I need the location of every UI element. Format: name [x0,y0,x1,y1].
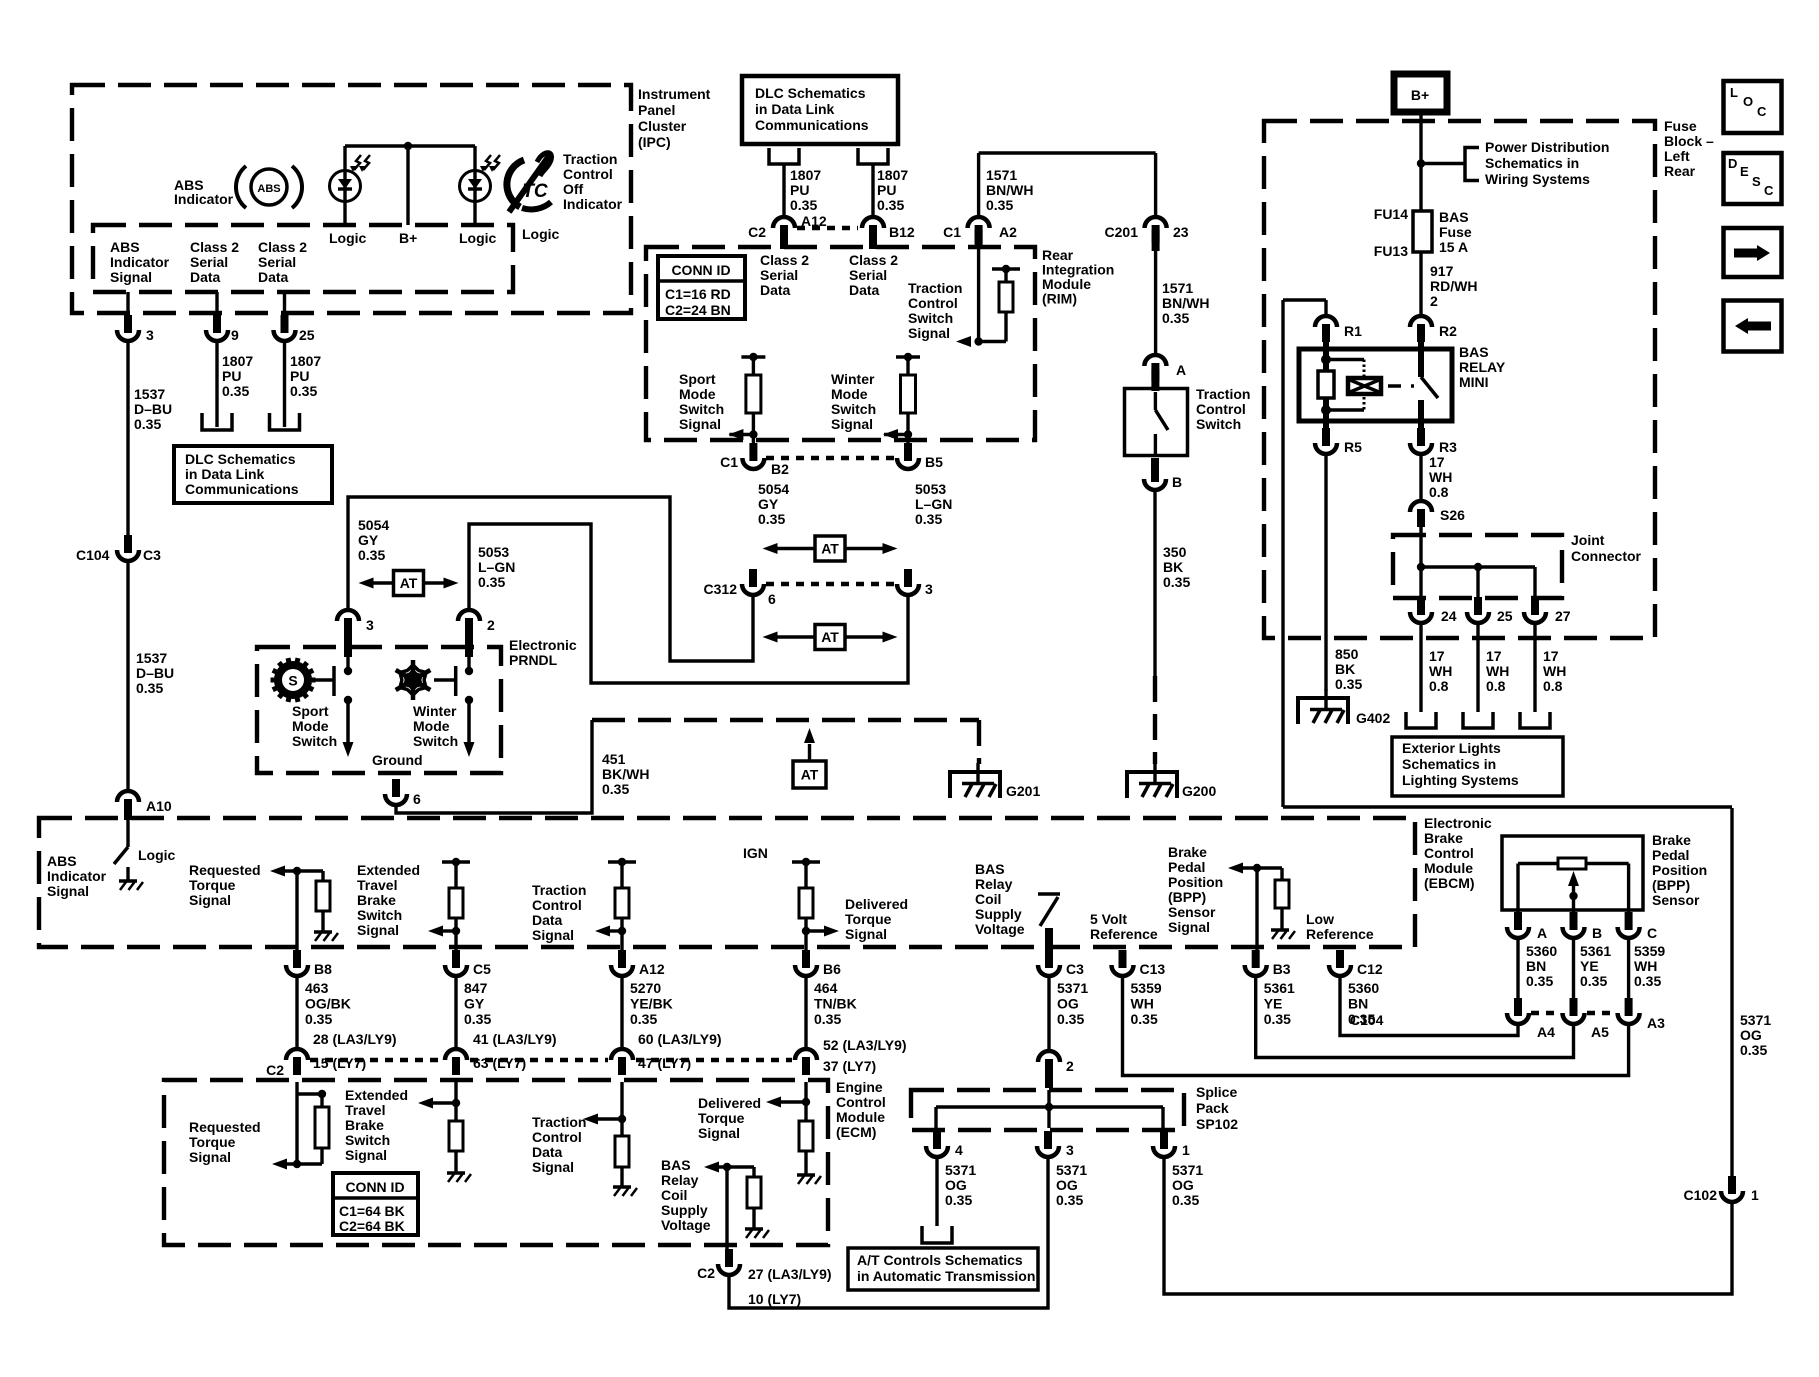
svg-text:Control: Control [532,1129,582,1145]
svg-text:0.35: 0.35 [630,1011,657,1027]
svg-text:C12: C12 [1357,961,1383,977]
svg-text:C2: C2 [697,1265,715,1281]
svg-text:Signal: Signal [532,927,574,943]
svg-text:451: 451 [602,751,626,767]
svg-text:TN/BK: TN/BK [814,996,857,1012]
svg-text:C2: C2 [748,224,766,240]
svg-text:Control: Control [563,166,613,182]
svg-text:PRNDL: PRNDL [509,652,558,668]
svg-text:Voltage: Voltage [975,921,1025,937]
svg-text:Pedal: Pedal [1168,859,1205,875]
svg-text:0.35: 0.35 [222,383,249,399]
svg-text:in Data Link: in Data Link [755,101,835,117]
svg-text:RD/WH: RD/WH [1430,278,1477,294]
svg-text:0.35: 0.35 [1264,1011,1291,1027]
svg-text:Switch: Switch [1196,416,1241,432]
svg-text:0.35: 0.35 [290,383,317,399]
svg-text:Travel: Travel [357,877,397,893]
svg-text:1807: 1807 [290,353,321,369]
svg-text:5 Volt: 5 Volt [1090,911,1127,927]
svg-text:Requested: Requested [189,1119,261,1135]
svg-text:6: 6 [413,791,421,807]
svg-text:C3: C3 [1066,961,1084,977]
svg-text:3: 3 [925,581,933,597]
svg-text:Signal: Signal [357,922,399,938]
svg-text:Indicator: Indicator [47,868,107,884]
svg-text:0.35: 0.35 [945,1192,972,1208]
svg-text:Requested: Requested [189,862,261,878]
svg-text:IGN: IGN [743,845,768,861]
svg-text:917: 917 [1430,263,1454,279]
svg-text:Torque: Torque [698,1110,745,1126]
svg-text:BK: BK [1335,661,1355,677]
svg-text:C13: C13 [1140,961,1166,977]
svg-text:Data: Data [190,269,221,285]
svg-text:5360: 5360 [1526,943,1557,959]
svg-text:2: 2 [1430,293,1438,309]
svg-text:5359: 5359 [1634,943,1665,959]
svg-text:S26: S26 [1440,507,1465,523]
svg-text:25: 25 [299,327,315,343]
svg-text:0.35: 0.35 [1057,1011,1084,1027]
svg-text:0.35: 0.35 [305,1011,332,1027]
svg-text:A10: A10 [146,798,172,814]
svg-text:0.35: 0.35 [1163,574,1190,590]
svg-text:C312: C312 [704,581,738,597]
svg-text:D–BU: D–BU [134,401,172,417]
svg-text:Class 2: Class 2 [258,239,307,255]
svg-text:C1=16 RD: C1=16 RD [665,286,731,302]
svg-text:Indicator: Indicator [110,254,170,270]
svg-text:MINI: MINI [1459,374,1489,390]
svg-text:G201: G201 [1006,783,1040,799]
svg-text:Sport: Sport [292,703,329,719]
svg-text:Control: Control [836,1094,886,1110]
svg-text:Serial: Serial [849,267,887,283]
svg-text:17: 17 [1543,648,1559,664]
svg-text:Joint: Joint [1571,532,1605,548]
svg-text:B5: B5 [925,454,943,470]
svg-text:5371: 5371 [1740,1012,1771,1028]
svg-text:L–GN: L–GN [478,559,515,575]
svg-text:0.35: 0.35 [758,511,785,527]
svg-text:Block –: Block – [1664,133,1714,149]
svg-text:1807: 1807 [877,167,908,183]
svg-text:Mode: Mode [679,386,716,402]
svg-text:Left: Left [1664,148,1690,164]
svg-text:PU: PU [790,182,809,198]
svg-text:Switch: Switch [292,733,337,749]
svg-text:A4: A4 [1537,1024,1555,1040]
svg-text:15 (LY7): 15 (LY7) [313,1055,366,1071]
svg-text:Switch: Switch [345,1132,390,1148]
svg-text:(EBCM): (EBCM) [1424,875,1475,891]
svg-text:DLC Schematics: DLC Schematics [185,451,296,467]
svg-text:Splice: Splice [1196,1084,1237,1100]
svg-text:0.8: 0.8 [1429,484,1449,500]
svg-text:D: D [1728,156,1737,171]
svg-text:S: S [1752,174,1761,189]
svg-text:B12: B12 [889,224,915,240]
svg-text:R2: R2 [1439,323,1457,339]
svg-text:0.35: 0.35 [464,1011,491,1027]
svg-text:YE/BK: YE/BK [630,996,673,1012]
svg-text:(IPC): (IPC) [638,134,671,150]
svg-text:B6: B6 [823,961,841,977]
svg-text:(RIM): (RIM) [1042,291,1077,307]
svg-text:1537: 1537 [136,650,167,666]
svg-text:C: C [1647,925,1657,941]
svg-text:FU14: FU14 [1374,206,1408,222]
svg-text:Module: Module [836,1109,885,1125]
svg-text:Schematics in: Schematics in [1402,756,1496,772]
svg-text:Coil: Coil [975,891,1001,907]
svg-text:Sensor: Sensor [1652,892,1700,908]
svg-text:0.35: 0.35 [1526,973,1553,989]
svg-text:Sport: Sport [679,371,716,387]
svg-text:CONN ID: CONN ID [345,1179,404,1195]
svg-text:Signal: Signal [189,1149,231,1165]
svg-text:0.35: 0.35 [877,197,904,213]
svg-text:BAS: BAS [1459,344,1489,360]
svg-text:6: 6 [768,591,776,607]
svg-text:OG: OG [1740,1027,1762,1043]
svg-text:AT: AT [801,767,819,783]
svg-text:Serial: Serial [258,254,296,270]
svg-text:0.35: 0.35 [915,511,942,527]
svg-text:5054: 5054 [758,481,789,497]
svg-text:Control: Control [908,295,958,311]
svg-text:OG: OG [1172,1177,1194,1193]
svg-text:RELAY: RELAY [1459,359,1506,375]
svg-text:1571: 1571 [986,167,1017,183]
svg-text:Control: Control [1196,401,1246,417]
svg-text:DLC Schematics: DLC Schematics [755,85,866,101]
svg-text:Signal: Signal [345,1147,387,1163]
svg-text:Logic: Logic [522,226,560,242]
svg-text:Pedal: Pedal [1652,847,1689,863]
svg-text:5361: 5361 [1580,943,1611,959]
svg-text:GY: GY [464,996,485,1012]
svg-text:in Automatic Transmission: in Automatic Transmission [857,1268,1035,1284]
svg-text:3: 3 [366,617,374,633]
svg-text:A2: A2 [999,224,1017,240]
svg-text:0.35: 0.35 [136,680,163,696]
svg-text:3: 3 [1066,1142,1074,1158]
svg-text:BAS: BAS [1439,209,1469,225]
svg-text:0.8: 0.8 [1486,678,1506,694]
svg-text:A3: A3 [1647,1015,1665,1031]
svg-text:Logic: Logic [459,230,497,246]
svg-text:R5: R5 [1344,439,1362,455]
svg-text:24: 24 [1441,608,1457,624]
svg-text:Voltage: Voltage [661,1217,711,1233]
svg-text:OG: OG [945,1177,967,1193]
svg-text:Cluster: Cluster [638,118,687,134]
svg-text:27 (LA3/LY9): 27 (LA3/LY9) [748,1266,832,1282]
svg-text:AT: AT [400,575,418,591]
svg-text:Position: Position [1652,862,1707,878]
svg-text:Serial: Serial [190,254,228,270]
svg-text:L: L [1730,85,1738,100]
svg-text:Power Distribution: Power Distribution [1485,139,1609,155]
svg-text:Signal: Signal [189,892,231,908]
svg-text:C102: C102 [1684,1187,1718,1203]
svg-text:1: 1 [1751,1187,1759,1203]
svg-text:(BPP): (BPP) [1168,889,1206,905]
svg-text:Signal: Signal [1168,919,1210,935]
svg-text:5371: 5371 [1056,1162,1087,1178]
svg-text:0.35: 0.35 [134,416,161,432]
svg-text:5054: 5054 [358,517,389,533]
svg-text:0.35: 0.35 [602,781,629,797]
svg-text:Switch: Switch [908,310,953,326]
svg-text:Extended: Extended [357,862,420,878]
svg-text:ABS: ABS [257,183,280,195]
svg-text:BN: BN [1526,958,1546,974]
svg-text:WH: WH [1429,469,1452,485]
svg-text:AT: AT [821,541,839,557]
svg-text:5270: 5270 [630,980,661,996]
svg-text:Signal: Signal [532,1159,574,1175]
svg-text:Pack: Pack [1196,1100,1229,1116]
svg-text:Electronic: Electronic [509,637,577,653]
svg-text:B+: B+ [399,230,417,246]
svg-text:GY: GY [358,532,379,548]
svg-text:Traction: Traction [532,882,586,898]
svg-text:2: 2 [487,617,495,633]
svg-text:R3: R3 [1439,439,1457,455]
svg-text:10 (LY7): 10 (LY7) [748,1291,801,1307]
svg-text:0.8: 0.8 [1429,678,1449,694]
svg-text:B2: B2 [771,461,789,477]
svg-text:C5: C5 [473,961,491,977]
svg-text:Brake: Brake [1424,830,1463,846]
svg-text:Data: Data [532,912,563,928]
svg-text:Engine: Engine [836,1079,883,1095]
svg-text:Travel: Travel [345,1102,385,1118]
svg-text:GY: GY [758,496,779,512]
svg-text:C1: C1 [720,454,738,470]
svg-text:Delivered: Delivered [698,1095,761,1111]
svg-text:Data: Data [258,269,289,285]
svg-text:C201: C201 [1105,224,1139,240]
svg-text:1: 1 [1182,1142,1190,1158]
svg-text:464: 464 [814,980,838,996]
svg-text:G402: G402 [1356,710,1390,726]
svg-text:PU: PU [877,182,896,198]
svg-text:0.35: 0.35 [358,547,385,563]
svg-text:Mode: Mode [413,718,450,734]
svg-text:S: S [288,673,297,689]
svg-text:Electronic: Electronic [1424,815,1492,831]
svg-text:A5: A5 [1591,1024,1609,1040]
svg-text:Brake: Brake [1168,844,1207,860]
svg-text:BN/WH: BN/WH [986,182,1033,198]
svg-text:C1: C1 [943,224,961,240]
svg-text:C: C [1764,183,1774,198]
svg-text:25: 25 [1497,608,1513,624]
svg-text:PU: PU [290,368,309,384]
svg-text:SP102: SP102 [1196,1116,1238,1132]
svg-text:Schematics in: Schematics in [1485,155,1579,171]
svg-text:A/T Controls Schematics: A/T Controls Schematics [857,1252,1023,1268]
svg-text:Instrument: Instrument [638,86,711,102]
svg-text:C104: C104 [76,547,110,563]
svg-text:Traction: Traction [1196,386,1250,402]
svg-text:Supply: Supply [975,906,1022,922]
svg-text:BK/WH: BK/WH [602,766,649,782]
svg-text:Class 2: Class 2 [849,252,898,268]
svg-text:Signal: Signal [110,269,152,285]
svg-text:52 (LA3/LY9): 52 (LA3/LY9) [823,1037,907,1053]
svg-text:WH: WH [1131,996,1154,1012]
svg-text:Relay: Relay [661,1172,699,1188]
svg-text:C: C [1757,104,1767,119]
svg-text:Logic: Logic [138,847,176,863]
svg-text:Signal: Signal [845,926,887,942]
svg-text:YE: YE [1264,996,1283,1012]
svg-text:5360: 5360 [1348,980,1379,996]
svg-text:B3: B3 [1273,961,1291,977]
svg-text:Ground: Ground [372,752,423,768]
svg-text:B: B [1172,474,1182,490]
svg-text:Winter: Winter [831,371,875,387]
svg-text:Switch: Switch [679,401,724,417]
svg-text:37 (LY7): 37 (LY7) [823,1058,876,1074]
svg-text:5371: 5371 [1057,980,1088,996]
svg-text:17: 17 [1486,648,1502,664]
svg-text:Extended: Extended [345,1087,408,1103]
svg-text:3: 3 [146,327,154,343]
svg-text:AT: AT [821,629,839,645]
svg-text:5053: 5053 [915,481,946,497]
svg-text:Torque: Torque [189,877,236,893]
svg-text:BK: BK [1163,559,1183,575]
svg-text:1571: 1571 [1162,280,1193,296]
svg-text:Class 2: Class 2 [190,239,239,255]
svg-text:C2: C2 [266,1062,284,1078]
svg-text:5371: 5371 [945,1162,976,1178]
svg-text:Data: Data [532,1144,563,1160]
svg-text:PU: PU [222,368,241,384]
svg-text:5361: 5361 [1264,980,1295,996]
svg-text:60 (LA3/LY9): 60 (LA3/LY9) [638,1031,722,1047]
svg-text:9: 9 [231,327,239,343]
svg-text:41 (LA3/LY9): 41 (LA3/LY9) [473,1031,557,1047]
svg-text:1807: 1807 [790,167,821,183]
svg-text:63 (LY7): 63 (LY7) [473,1055,526,1071]
svg-text:0.35: 0.35 [1172,1192,1199,1208]
svg-text:C1=64 BK: C1=64 BK [339,1203,405,1219]
svg-text:Brake: Brake [1652,832,1691,848]
svg-text:Communications: Communications [185,481,299,497]
svg-text:Indicator: Indicator [174,191,234,207]
svg-text:Switch: Switch [831,401,876,417]
svg-text:BN/WH: BN/WH [1162,295,1209,311]
svg-text:Supply: Supply [661,1202,708,1218]
svg-text:Fuse: Fuse [1439,224,1472,240]
svg-text:ABS: ABS [47,853,77,869]
svg-text:23: 23 [1173,224,1189,240]
svg-text:Winter: Winter [413,703,457,719]
svg-text:Communications: Communications [755,117,869,133]
svg-text:0.35: 0.35 [1580,973,1607,989]
svg-text:Reference: Reference [1090,926,1158,942]
svg-text:17: 17 [1429,454,1445,470]
svg-text:Indicator: Indicator [563,196,623,212]
svg-text:A: A [1176,362,1186,378]
svg-text:Data: Data [849,282,880,298]
svg-text:0.35: 0.35 [1634,973,1661,989]
svg-text:2: 2 [1066,1058,1074,1074]
svg-text:0.35: 0.35 [1162,310,1189,326]
svg-text:WH: WH [1634,958,1657,974]
svg-text:Serial: Serial [760,267,798,283]
svg-text:847: 847 [464,980,488,996]
svg-text:0.35: 0.35 [790,197,817,213]
svg-text:Signal: Signal [698,1125,740,1141]
svg-text:FU13: FU13 [1374,243,1408,259]
svg-text:463: 463 [305,980,329,996]
svg-text:4: 4 [955,1142,963,1158]
svg-text:Lighting Systems: Lighting Systems [1402,772,1519,788]
svg-text:Signal: Signal [679,416,721,432]
svg-text:Exterior Lights: Exterior Lights [1402,740,1501,756]
svg-text:Brake: Brake [357,892,396,908]
svg-text:1537: 1537 [134,386,165,402]
svg-text:OG: OG [1057,996,1079,1012]
svg-text:0.35: 0.35 [814,1011,841,1027]
svg-text:Torque: Torque [189,1134,236,1150]
svg-text:Coil: Coil [661,1187,687,1203]
svg-text:C104: C104 [1350,1012,1384,1028]
svg-text:27: 27 [1555,608,1571,624]
svg-text:C3: C3 [143,547,161,563]
svg-text:Reference: Reference [1306,926,1374,942]
svg-text:15 A: 15 A [1439,239,1468,255]
svg-text:in Data Link: in Data Link [185,466,265,482]
svg-text:0.35: 0.35 [986,197,1013,213]
svg-text:5371: 5371 [1172,1162,1203,1178]
svg-text:0.8: 0.8 [1543,678,1563,694]
svg-text:OG: OG [1056,1177,1078,1193]
svg-text:Position: Position [1168,874,1223,890]
svg-text:Module: Module [1424,860,1473,876]
svg-text:A12: A12 [639,961,665,977]
svg-text:Panel: Panel [638,102,675,118]
svg-text:5359: 5359 [1131,980,1162,996]
svg-text:Sensor: Sensor [1168,904,1216,920]
svg-text:1807: 1807 [222,353,253,369]
svg-text:5053: 5053 [478,544,509,560]
svg-text:Low: Low [1306,911,1334,927]
svg-text:Control: Control [1424,845,1474,861]
svg-text:G200: G200 [1182,783,1216,799]
svg-text:Signal: Signal [831,416,873,432]
svg-text:17: 17 [1429,648,1445,664]
svg-text:R1: R1 [1344,323,1362,339]
svg-text:D–BU: D–BU [136,665,174,681]
svg-text:WH: WH [1486,663,1509,679]
svg-text:Connector: Connector [1571,548,1642,564]
svg-text:0.35: 0.35 [1131,1011,1158,1027]
svg-text:Signal: Signal [47,883,89,899]
svg-text:Switch: Switch [413,733,458,749]
svg-text:Relay: Relay [975,876,1013,892]
svg-text:Traction: Traction [563,151,617,167]
svg-text:B+: B+ [1411,87,1429,103]
